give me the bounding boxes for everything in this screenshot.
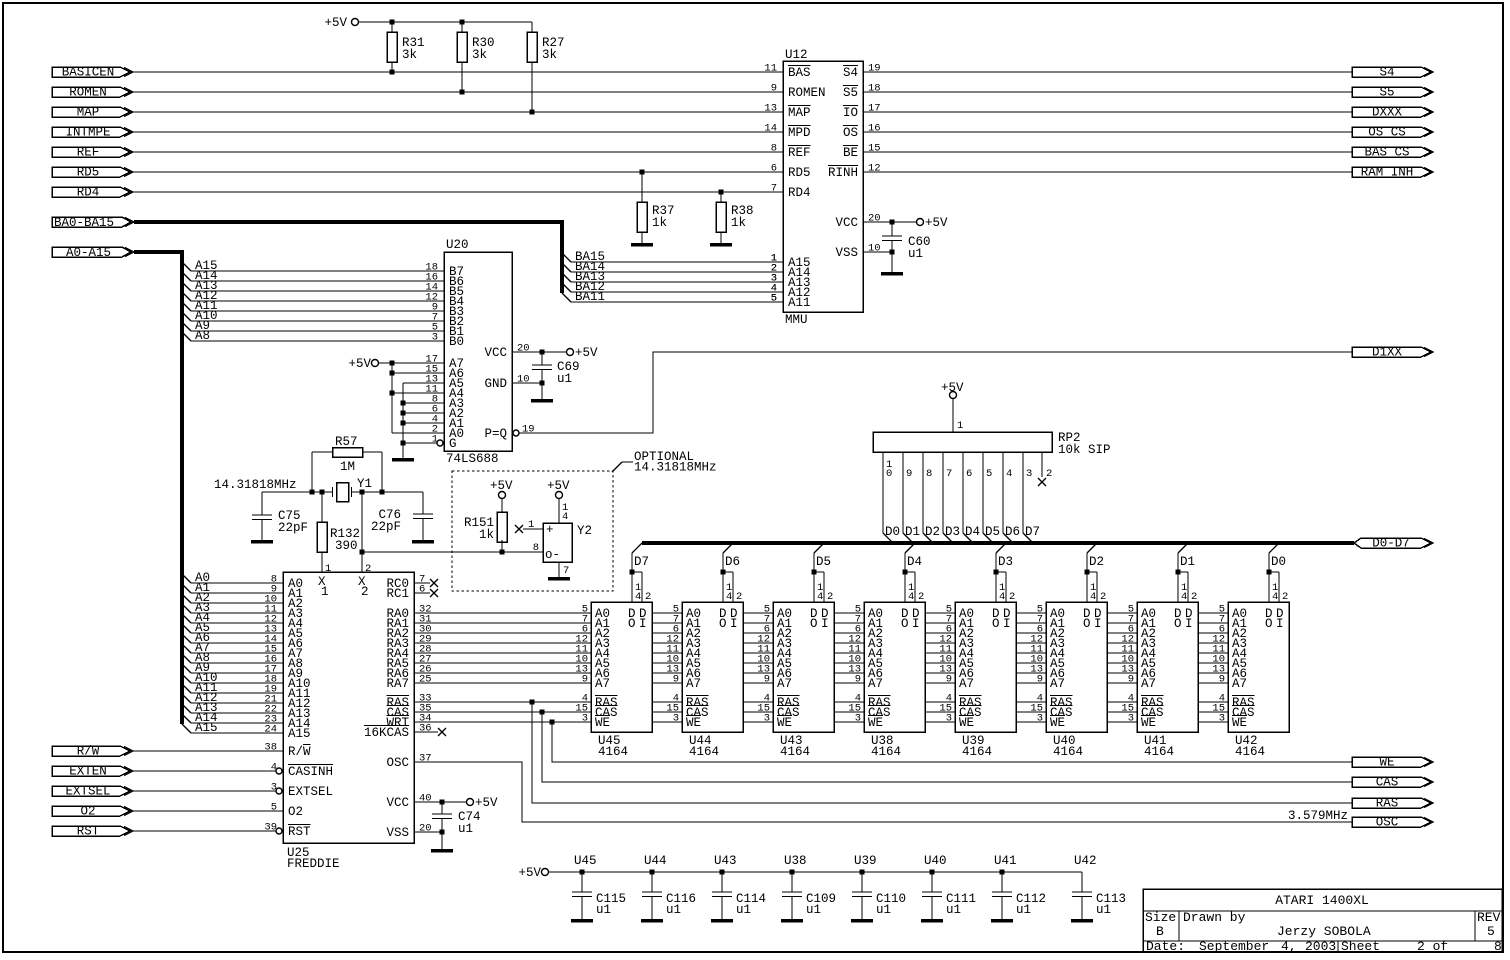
svg-text:A0-A15: A0-A15 xyxy=(66,246,111,260)
U20 right pin labels xyxy=(484,346,507,441)
flag WE xyxy=(1352,756,1433,770)
power +5V (Y2 pin 14) xyxy=(547,479,570,499)
svg-text:+5V: +5V xyxy=(518,866,541,880)
wire crystal net left xyxy=(262,491,333,493)
svg-text:5: 5 xyxy=(1487,924,1495,939)
capacitor C114 u1 (bypass for U43) xyxy=(712,854,766,919)
svg-text:MPD: MPD xyxy=(788,126,811,140)
wire RST with bubble xyxy=(133,822,282,835)
junction xyxy=(650,870,655,875)
svg-text:A7: A7 xyxy=(1050,677,1065,691)
svg-text:4: 4 xyxy=(1090,591,1096,603)
svg-text:390: 390 xyxy=(335,539,358,553)
svg-text:D0: D0 xyxy=(885,525,900,539)
bus entry BA15 xyxy=(562,250,783,265)
U41 address/control wires and pin numbers xyxy=(1107,604,1137,725)
svg-text:MAP: MAP xyxy=(788,106,811,120)
IC U45 4164 body xyxy=(591,602,652,759)
wire U20 GND xyxy=(512,374,542,386)
U12 left pin numbers xyxy=(764,63,777,305)
bus entry A10 to U20 xyxy=(182,309,444,324)
U42 address/control wires and pin numbers xyxy=(1198,604,1228,725)
svg-text:4: 4 xyxy=(1181,591,1187,603)
svg-text:B: B xyxy=(1156,924,1164,939)
svg-text:Date:: Date: xyxy=(1146,939,1185,954)
svg-text:RD5: RD5 xyxy=(788,166,811,180)
svg-text:D1: D1 xyxy=(1180,555,1195,569)
svg-text:R/W: R/W xyxy=(77,745,100,759)
wire ROMEN to U12 xyxy=(133,91,783,93)
ground xyxy=(571,919,593,923)
flag MAP xyxy=(52,106,133,120)
svg-text:9: 9 xyxy=(764,674,770,686)
svg-text:3: 3 xyxy=(1128,713,1134,725)
capacitor C75 22pF xyxy=(252,492,308,540)
svg-text:U41: U41 xyxy=(994,854,1017,868)
svg-text:RD4: RD4 xyxy=(788,186,811,200)
svg-text:7: 7 xyxy=(771,183,777,195)
svg-text:4164: 4164 xyxy=(1144,745,1174,759)
svg-text:D7: D7 xyxy=(1025,525,1040,539)
capacitor C116 u1 (bypass for U44) xyxy=(642,854,696,919)
svg-text:D4: D4 xyxy=(965,525,980,539)
svg-text:22pF: 22pF xyxy=(278,521,308,535)
wire REF to U12 xyxy=(133,151,783,153)
junction xyxy=(530,700,535,705)
RP2 pin 6 to bus entry D4 xyxy=(963,452,980,543)
ground xyxy=(711,919,733,923)
svg-text:u1: u1 xyxy=(806,903,821,917)
bus entry A14 to U25 xyxy=(182,711,283,726)
bus entry A6 to U25 xyxy=(182,631,283,646)
junction xyxy=(401,421,406,426)
bus entry D2 to U40 data pins 14/2 xyxy=(1087,543,1106,603)
svg-text:WE: WE xyxy=(777,716,792,730)
svg-text:2: 2 xyxy=(736,591,742,603)
IC U43 4164 body xyxy=(773,602,834,759)
IC U41 4164 body xyxy=(1137,602,1198,759)
svg-text:WE: WE xyxy=(686,716,701,730)
junction xyxy=(460,90,465,95)
junction xyxy=(380,490,385,495)
bus entry A10 to U25 xyxy=(182,671,283,686)
ground xyxy=(881,272,903,276)
flag OS CS xyxy=(1352,126,1433,140)
svg-text:10: 10 xyxy=(517,374,530,386)
capacitor C115 u1 (bypass for U45) xyxy=(572,854,626,919)
wire X2 to Y2 pin 8 xyxy=(362,551,543,553)
bus entry A1 to U25 xyxy=(182,581,283,596)
svg-text:9: 9 xyxy=(1219,674,1225,686)
flag ROMEN xyxy=(52,86,133,100)
svg-text:A7: A7 xyxy=(777,677,792,691)
flag RST xyxy=(52,825,133,839)
resistor R132 390 xyxy=(317,492,360,572)
wire U12 OS CS xyxy=(863,131,1352,133)
svg-text:MAP: MAP xyxy=(77,106,100,120)
svg-text:A11: A11 xyxy=(788,296,811,310)
RP2 pin 2 no-connect xyxy=(1038,452,1052,486)
U43 address/control wires and pin numbers xyxy=(743,604,773,725)
resistor R27 3k xyxy=(527,22,565,112)
IC U38 4164 body xyxy=(864,602,925,759)
svg-text:OSC: OSC xyxy=(386,756,409,770)
capacitor C111 u1 (bypass for U40) xyxy=(922,854,976,919)
wire U25 VSS xyxy=(414,831,442,833)
junction xyxy=(500,550,505,555)
junction xyxy=(890,250,895,255)
U20 pin G bubble xyxy=(437,440,443,446)
ground xyxy=(431,849,453,853)
wire CAS to flag xyxy=(542,712,1352,782)
optional oscillator dashed box xyxy=(452,450,717,591)
svg-text:RD5: RD5 xyxy=(77,166,100,180)
bus A0-A15 xyxy=(134,252,182,724)
flag BAS CS xyxy=(1352,146,1433,160)
svg-text:BA0-BA15: BA0-BA15 xyxy=(54,216,114,230)
junction xyxy=(540,381,545,386)
svg-text:EXTSEL: EXTSEL xyxy=(65,785,110,799)
svg-text:16KCAS: 16KCAS xyxy=(364,726,409,740)
svg-text:O: O xyxy=(1265,617,1273,631)
U25 RC0 no-connect xyxy=(414,579,438,587)
junction xyxy=(550,720,555,725)
flag R/W xyxy=(52,745,133,759)
junction xyxy=(860,870,865,875)
svg-text:VCC: VCC xyxy=(484,346,507,360)
svg-text:B0: B0 xyxy=(449,335,464,349)
svg-text:BAS: BAS xyxy=(788,66,811,80)
svg-text:14.31818MHz: 14.31818MHz xyxy=(214,478,297,492)
svg-text:S5: S5 xyxy=(843,86,858,100)
power +5V (U20) xyxy=(567,346,599,360)
svg-text:4: 4 xyxy=(1006,468,1012,480)
svg-text:3k: 3k xyxy=(542,48,557,62)
svg-text:u1: u1 xyxy=(1016,903,1031,917)
svg-text:R/W: R/W xyxy=(288,745,311,759)
bus entry A9 to U25 xyxy=(182,661,283,676)
wire U12 DXXX xyxy=(863,111,1352,113)
svg-text:RAS: RAS xyxy=(1376,797,1399,811)
svg-text:A7: A7 xyxy=(959,677,974,691)
wire +5V net to A7 A6 A4 A0 xyxy=(379,363,445,433)
resistor R38 1k xyxy=(716,192,754,243)
IC U20 74LS688 body xyxy=(444,238,512,466)
svg-text:VCC: VCC xyxy=(386,796,409,810)
bus entry A11 to U25 xyxy=(182,681,283,696)
wire BASICEN to U12 xyxy=(133,71,783,73)
svg-text:3: 3 xyxy=(582,713,588,725)
U25 16KCAS no-connect xyxy=(414,728,446,736)
svg-text:CASINH: CASINH xyxy=(288,765,333,779)
svg-text:39: 39 xyxy=(264,822,277,834)
svg-text:4: 4 xyxy=(562,511,568,523)
svg-text:+5V: +5V xyxy=(475,796,498,810)
IC U42 4164 body xyxy=(1228,602,1289,759)
svg-text:D7: D7 xyxy=(634,555,649,569)
svg-text:D2: D2 xyxy=(1089,555,1104,569)
capacitor C69 u1 xyxy=(532,352,580,399)
svg-text:3: 3 xyxy=(946,713,952,725)
title text ATARI 1400XL xyxy=(1275,893,1369,908)
svg-text:1k: 1k xyxy=(652,216,667,230)
svg-text:+5V: +5V xyxy=(575,346,598,360)
RP2 pin 3 to bus entry D7 xyxy=(1023,452,1040,543)
svg-text:4164: 4164 xyxy=(780,745,810,759)
svg-text:A7: A7 xyxy=(868,677,883,691)
wire +5V bypass rail xyxy=(549,871,1083,873)
svg-text:9: 9 xyxy=(855,674,861,686)
junction xyxy=(360,490,365,495)
bus entry A5 to U25 xyxy=(182,621,283,636)
bus entry D4 to U38 data pins 14/2 xyxy=(905,543,924,603)
flag BA0-BA15 (bus) xyxy=(52,216,134,230)
svg-text:I: I xyxy=(1185,617,1193,631)
IC U12 MMU body xyxy=(783,48,863,327)
svg-text:U12: U12 xyxy=(785,48,808,62)
svg-text:1k: 1k xyxy=(731,216,746,230)
title field Drawn by Jerzy SOBOLA xyxy=(1183,910,1371,939)
crystal Y1 xyxy=(333,477,373,502)
svg-text:5: 5 xyxy=(771,293,777,305)
svg-text:U43: U43 xyxy=(714,854,737,868)
resistor R57 1M xyxy=(312,435,382,492)
junction xyxy=(360,550,365,555)
svg-text:74LS688: 74LS688 xyxy=(446,452,499,466)
junction xyxy=(720,870,725,875)
svg-text:P=Q: P=Q xyxy=(484,427,507,441)
junction xyxy=(540,350,545,355)
svg-text:O: O xyxy=(1174,617,1182,631)
svg-text:Jerzy SOBOLA: Jerzy SOBOLA xyxy=(1277,924,1371,939)
svg-text:I: I xyxy=(912,617,920,631)
svg-text:O: O xyxy=(719,617,727,631)
wire U12 S5 xyxy=(863,91,1352,93)
svg-text:U39: U39 xyxy=(854,854,877,868)
svg-text:GND: GND xyxy=(484,377,507,391)
junction xyxy=(460,20,465,25)
svg-text:BASICEN: BASICEN xyxy=(62,66,115,80)
svg-text:3: 3 xyxy=(855,713,861,725)
svg-text:U42: U42 xyxy=(1074,854,1097,868)
junction xyxy=(440,830,445,835)
U20 A-side pin numbers xyxy=(425,354,438,446)
RP2 pin 5 to bus entry D5 xyxy=(983,452,1000,543)
wire RD4 to U12 xyxy=(133,191,783,193)
svg-text:2: 2 xyxy=(645,591,651,603)
ground xyxy=(991,919,1013,923)
svg-text:3: 3 xyxy=(432,332,438,344)
U40 address/control wires and pin numbers xyxy=(1016,604,1046,725)
resistor pack RP2 10k SIP xyxy=(873,431,1111,457)
ground xyxy=(710,243,732,247)
svg-text:D5: D5 xyxy=(985,525,1000,539)
wire EXTEN (CASINH) with bubble xyxy=(133,762,282,775)
svg-text:+5V: +5V xyxy=(348,357,371,371)
svg-text:4: 4 xyxy=(999,591,1005,603)
svg-text:3k: 3k xyxy=(402,48,417,62)
svg-text:7: 7 xyxy=(946,468,952,480)
svg-text:u1: u1 xyxy=(458,822,473,836)
resistor R37 1k xyxy=(637,172,675,243)
svg-text:September: September xyxy=(1199,939,1269,954)
svg-text:u1: u1 xyxy=(666,903,681,917)
oscillator Y2 xyxy=(543,523,592,562)
svg-text:D4: D4 xyxy=(907,555,922,569)
svg-text:U45: U45 xyxy=(574,854,597,868)
svg-text:+5V: +5V xyxy=(925,216,948,230)
junction xyxy=(1000,870,1005,875)
svg-text:0: 0 xyxy=(886,468,892,480)
label 14.31818MHz xyxy=(214,478,297,492)
svg-text:9: 9 xyxy=(1128,674,1134,686)
svg-text:O: O xyxy=(628,617,636,631)
svg-text:D2: D2 xyxy=(925,525,940,539)
svg-text:+: + xyxy=(546,523,554,537)
svg-text:REF: REF xyxy=(77,146,100,160)
svg-text:4: 4 xyxy=(635,591,641,603)
svg-text:WE: WE xyxy=(959,716,974,730)
svg-text:2: 2 xyxy=(1100,591,1106,603)
svg-text:2: 2 xyxy=(365,563,371,575)
svg-text:OS CS: OS CS xyxy=(1368,126,1406,140)
wire crystal net right xyxy=(352,491,424,493)
svg-text:CAS: CAS xyxy=(1376,776,1399,790)
wire U12 S4 xyxy=(863,71,1352,73)
junction xyxy=(440,800,445,805)
svg-text:WE: WE xyxy=(868,716,883,730)
svg-text:2: 2 xyxy=(1009,591,1015,603)
flag REF xyxy=(52,146,133,160)
svg-text:A7: A7 xyxy=(686,677,701,691)
wire X2 net xyxy=(361,492,363,572)
RP2 pin 8 to bus entry D2 xyxy=(923,452,940,543)
flag BASICEN xyxy=(52,66,133,80)
wire +5V to R31 R30 R27 xyxy=(359,21,533,23)
svg-text:2: 2 xyxy=(1191,591,1197,603)
capacitor C60 u1 xyxy=(882,222,931,272)
svg-text:G: G xyxy=(449,437,457,451)
ground xyxy=(392,458,414,462)
svg-text:u1: u1 xyxy=(596,903,611,917)
svg-text:U40: U40 xyxy=(924,854,947,868)
power +5V (U12) xyxy=(917,216,949,230)
svg-text:6: 6 xyxy=(771,163,777,175)
U44 address/control wires and pin numbers xyxy=(652,604,682,725)
svg-text:WE: WE xyxy=(1232,716,1247,730)
svg-text:I: I xyxy=(1094,617,1102,631)
junction xyxy=(1176,570,1181,575)
svg-text:D1XX: D1XX xyxy=(1372,346,1403,360)
svg-text:WE: WE xyxy=(1050,716,1065,730)
junction xyxy=(401,411,406,416)
svg-text:u1: u1 xyxy=(908,247,923,261)
wire OSC to flag xyxy=(414,762,1352,822)
svg-text:3.579MHz: 3.579MHz xyxy=(1288,809,1348,823)
U25 RC1 no-connect xyxy=(414,589,438,597)
svg-text:S5: S5 xyxy=(1379,86,1394,100)
bus entry D5 to U43 data pins 14/2 xyxy=(814,543,833,603)
bus entry A8 to U20 xyxy=(182,329,444,344)
resistor R151 1k xyxy=(464,499,507,553)
IC U44 4164 body xyxy=(682,602,743,759)
junction xyxy=(930,870,935,875)
junction xyxy=(390,70,395,75)
label 3.579MHz xyxy=(1288,809,1348,823)
svg-text:D6: D6 xyxy=(725,555,740,569)
flag RD5 xyxy=(52,166,133,180)
U12 left pin labels xyxy=(788,66,826,311)
svg-text:1: 1 xyxy=(528,519,534,531)
ground xyxy=(631,243,653,247)
junction xyxy=(640,170,645,175)
svg-text:VSS: VSS xyxy=(835,246,858,260)
svg-text:ROMEN: ROMEN xyxy=(788,86,826,100)
svg-text:3: 3 xyxy=(1026,468,1032,480)
svg-text:A15: A15 xyxy=(288,727,311,741)
svg-text:24: 24 xyxy=(264,724,277,736)
svg-text:O: O xyxy=(810,617,818,631)
IC U39 4164 body xyxy=(955,602,1016,759)
Y2 pin 1 no-connect xyxy=(515,519,543,533)
junction xyxy=(320,490,325,495)
svg-text:I: I xyxy=(730,617,738,631)
svg-text:u1: u1 xyxy=(557,372,572,386)
flag OSC xyxy=(1352,816,1433,830)
U12 right pin labels xyxy=(828,66,858,261)
ground xyxy=(548,577,570,581)
svg-text:Sheet: Sheet xyxy=(1341,939,1380,954)
svg-text:O: O xyxy=(992,617,1000,631)
svg-text:D3: D3 xyxy=(998,555,1013,569)
power +5V (R151) xyxy=(490,479,513,499)
junction xyxy=(812,570,817,575)
RP2 pin 9 to bus entry D1 xyxy=(903,452,920,543)
svg-text:A7: A7 xyxy=(595,677,610,691)
svg-text:4,: 4, xyxy=(1281,939,1297,954)
bus entry A15 to U25 xyxy=(182,721,283,736)
title field Size B xyxy=(1145,910,1176,939)
svg-text:I: I xyxy=(821,617,829,631)
ground xyxy=(531,399,553,403)
svg-text:D3: D3 xyxy=(945,525,960,539)
flag RAS xyxy=(1352,797,1433,811)
wire Y2 pin 14 xyxy=(559,499,568,524)
wire ground net A5 A3 A2 A1 G xyxy=(403,383,444,458)
svg-text:Y2: Y2 xyxy=(577,524,592,538)
U39 address/control wires and pin numbers xyxy=(925,604,955,725)
svg-text:RAM INH: RAM INH xyxy=(1361,166,1414,180)
U25 top pin labels X1 X2 xyxy=(318,575,369,599)
svg-text:1M: 1M xyxy=(340,460,355,474)
svg-text:RINH: RINH xyxy=(828,166,858,180)
wire U12 BAS CS xyxy=(863,151,1352,153)
svg-text:3: 3 xyxy=(1037,713,1043,725)
svg-text:EXTEN: EXTEN xyxy=(69,765,107,779)
flag S4 xyxy=(1352,66,1433,80)
svg-text:20: 20 xyxy=(517,343,530,355)
junction xyxy=(540,710,545,715)
svg-text:6: 6 xyxy=(966,468,972,480)
flag EXTSEL xyxy=(52,785,133,799)
svg-text:14.31818MHz: 14.31818MHz xyxy=(634,461,717,475)
svg-text:2: 2 xyxy=(827,591,833,603)
capacitor C112 u1 (bypass for U41) xyxy=(992,854,1046,919)
svg-text:3: 3 xyxy=(673,713,679,725)
svg-text:D1: D1 xyxy=(905,525,920,539)
RP2 pin 10 to bus entry D0 xyxy=(883,452,900,543)
resistor R31 3k xyxy=(387,22,425,72)
